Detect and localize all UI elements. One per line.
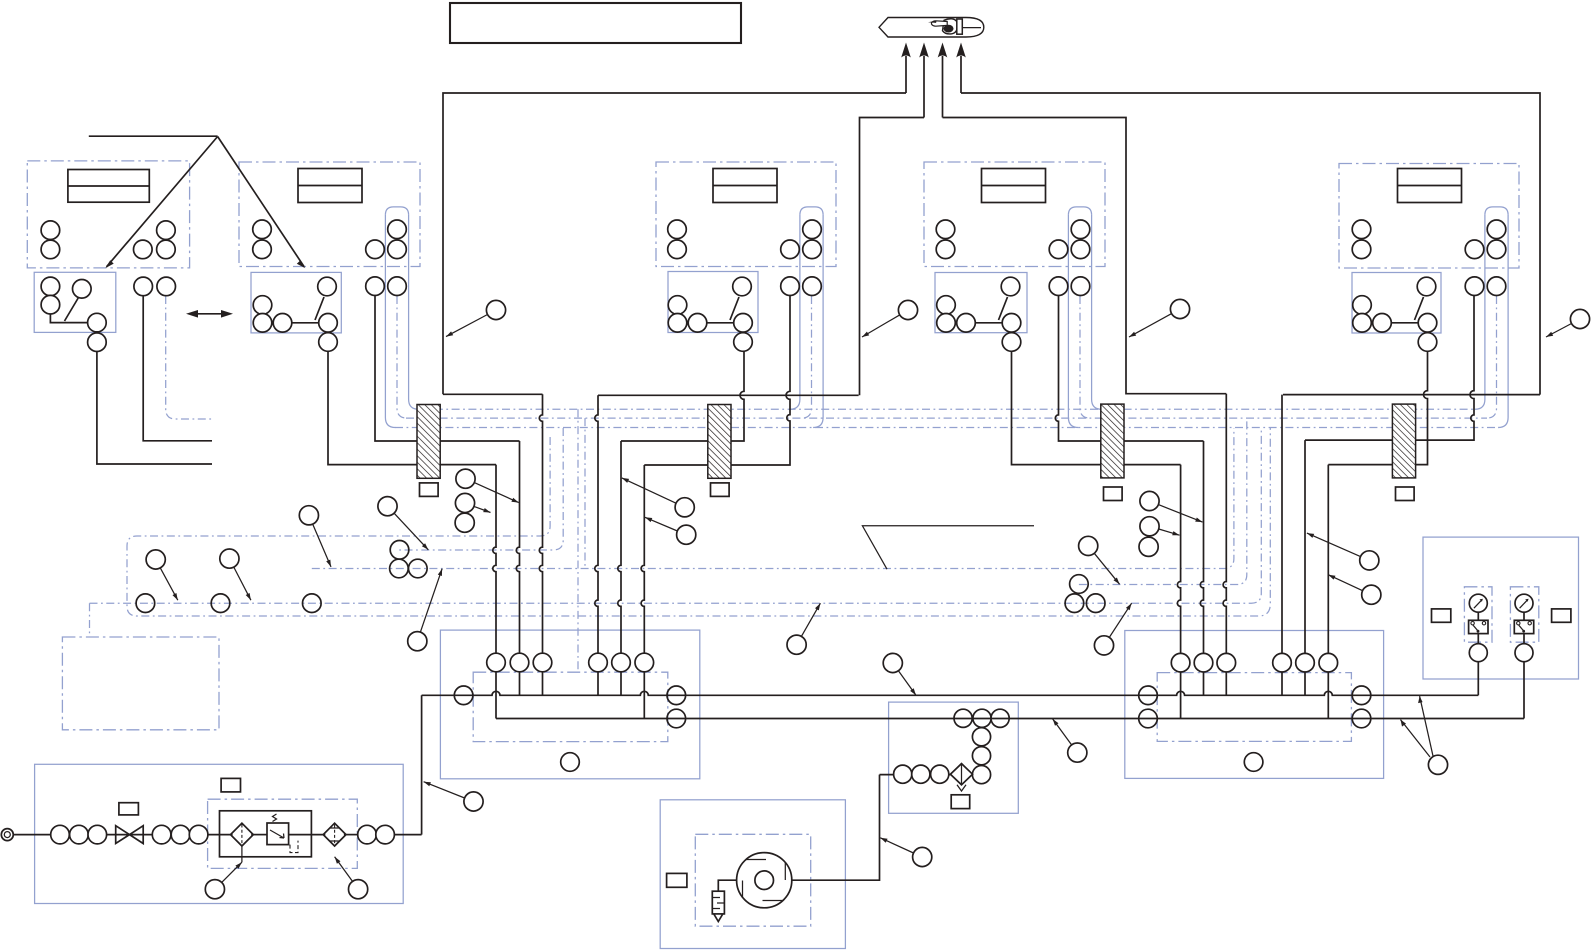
callout balloon — [1053, 719, 1087, 762]
door engine unit A enclosure — [27, 161, 189, 268]
pointing-hand banner — [879, 18, 984, 38]
unit D supply ports — [1352, 220, 1371, 239]
callout balloon — [335, 857, 368, 899]
pilot drop to reservoir box — [89, 603, 91, 637]
right manifold port x1328.3 — [1319, 653, 1338, 672]
unit C port pipe to manifold — [1055, 296, 1203, 442]
callout balloon — [862, 300, 918, 337]
callout balloon — [1307, 533, 1379, 570]
supply pipe — [344, 834, 358, 836]
supply union circles — [51, 825, 70, 844]
door engine unit C enclosure — [924, 162, 1105, 267]
pilot line y584 — [1079, 419, 1247, 585]
pilot line bundle run 2 — [406, 417, 1487, 419]
reservoir dash-dot box (empty) — [62, 637, 219, 730]
compressor intake pipe — [718, 880, 736, 891]
gauge 1 drop pipe — [1477, 662, 1479, 696]
callout balloon — [299, 506, 331, 567]
unit B valve pipe to manifold — [621, 351, 744, 441]
right manifold riser 4 — [1281, 395, 1283, 696]
unit B pilot capsule — [790, 215, 800, 409]
pressure regulator — [267, 823, 289, 845]
unit A relay valve — [73, 280, 92, 299]
supply pipe — [251, 834, 267, 836]
wall gland plate 1 — [417, 405, 440, 479]
filter 1 drain — [241, 846, 243, 862]
cluster circles on bus 2 — [954, 709, 972, 727]
main enclosure outline right — [961, 93, 1540, 395]
callout balloon — [1129, 299, 1190, 337]
unit A cylinder — [68, 170, 149, 203]
left manifold riser 2 — [516, 441, 519, 695]
supply riser — [421, 695, 423, 834]
supply pipe — [107, 834, 153, 836]
unit A2 outlet ports — [366, 277, 385, 296]
door engine unit D enclosure — [1339, 164, 1519, 269]
left manifold riser 4 — [595, 395, 598, 695]
callout balloon — [883, 653, 916, 695]
unit D valve box — [1352, 273, 1441, 334]
gland 2 label square — [711, 483, 730, 497]
unit D valve pipe to manifold — [1328, 352, 1427, 465]
callout balloon — [1079, 536, 1120, 584]
title box (empty) — [450, 3, 741, 43]
main enclosure bottom right segment — [1283, 394, 1540, 396]
inner enclosure outline right — [943, 118, 1227, 394]
pilot line y603 — [90, 428, 1262, 603]
FRL black frame — [220, 811, 312, 857]
supply source symbol — [1, 829, 13, 841]
supply pipe — [13, 834, 50, 836]
left manifold port x598 — [589, 653, 608, 672]
cluster label square — [951, 795, 970, 809]
pilot line bundle run 1 — [418, 408, 1475, 410]
left manifold riser 1 — [493, 465, 496, 719]
main air bus 2 — [496, 718, 1524, 720]
right manifold port x1305 — [1296, 653, 1315, 672]
callout balloon (blank) — [1139, 537, 1158, 556]
unit D port pipe to manifold — [1305, 296, 1474, 441]
unit B cylinder — [713, 169, 777, 203]
gauge 2 drop pipe — [1523, 662, 1525, 719]
wall gland plate 3 — [1101, 404, 1124, 478]
arrow to banner — [956, 43, 966, 94]
pressure gauge & switch 1 — [1469, 594, 1487, 612]
unit A port pipe stub — [143, 296, 212, 441]
pressure switch panel enclosure — [1423, 537, 1579, 679]
switch panel label square left — [1432, 609, 1451, 622]
pressure gauge 2 dash-dot box — [1510, 587, 1538, 642]
door engine unit B enclosure — [656, 162, 836, 267]
cluster check valve diamond — [950, 764, 972, 785]
supply pipe — [289, 834, 326, 836]
unit D cylinder — [1398, 169, 1462, 203]
unit B relay valve — [733, 277, 752, 296]
right manifold riser 2 — [1200, 441, 1203, 695]
right manifold port x1226.3 — [1217, 653, 1236, 672]
callout balloon — [1140, 517, 1180, 536]
compressor discharge pipe — [792, 775, 880, 881]
unit A valve pipe stub — [97, 352, 212, 465]
unit C valve pipe to manifold — [1012, 352, 1181, 465]
arrow to banner — [919, 43, 929, 118]
unit A pilot stub — [166, 296, 212, 419]
callout balloon — [220, 549, 251, 600]
left manifold enclosure — [440, 630, 699, 779]
unit A2 valve pipe to manifold — [328, 352, 496, 465]
unit A valve box — [34, 272, 116, 332]
unit A2 port pipe to manifold — [375, 296, 520, 442]
unit A outlet ports — [134, 277, 153, 296]
unit B supply ports — [668, 220, 687, 239]
right manifold riser 6 — [1327, 465, 1329, 719]
left manifold port x644.3 — [635, 653, 654, 672]
pilot duct outline left loop — [127, 428, 1270, 616]
unit C valve box — [935, 273, 1027, 333]
left manifold port x519.5 — [510, 653, 529, 672]
air supply unit enclosure — [35, 764, 404, 903]
unit B port pipe to manifold — [644, 296, 790, 466]
inner enclosure outline left — [860, 118, 925, 396]
callout balloon — [456, 469, 519, 503]
callout balloon double — [1401, 696, 1448, 774]
right manifold riser 5 — [1304, 440, 1306, 695]
right manifold port x1282 — [1273, 653, 1292, 672]
compressor inner dash-dot box — [695, 834, 810, 926]
unit C supply ports — [936, 220, 955, 239]
unit C cylinder — [982, 169, 1046, 203]
filter 1 diamond — [231, 823, 254, 846]
door engine unit A2 enclosure — [239, 162, 420, 267]
compressor label square — [667, 873, 687, 887]
unit C outlet ports — [1049, 277, 1068, 296]
right manifold port x1203.5 — [1194, 653, 1213, 672]
unit C relay valve — [1001, 277, 1020, 296]
wall gland plate 4 — [1392, 404, 1415, 478]
pilot line y568 — [312, 428, 1234, 569]
gland 3 label square — [1104, 487, 1123, 501]
callout balloon — [1140, 491, 1203, 522]
stop valve label square — [119, 803, 138, 815]
switch panel label square right — [1552, 609, 1571, 622]
right manifold drain circle — [1244, 753, 1263, 772]
right manifold riser 3 — [1223, 394, 1226, 696]
FRL label square — [221, 778, 240, 792]
left manifold port x621 — [612, 653, 631, 672]
right manifold riser 1 — [1177, 465, 1180, 719]
compressor intake filter — [712, 891, 724, 914]
door fold line left — [105, 137, 217, 269]
unit A2 valve box — [251, 272, 341, 333]
unit D pilot capsule — [1475, 215, 1485, 409]
main enclosure outline left — [443, 93, 906, 394]
gland 4 label square — [1396, 487, 1415, 501]
door travel double arrow — [186, 310, 233, 318]
unit A2 relay valve — [318, 277, 337, 296]
pressure gauge & switch 2 — [1515, 594, 1533, 612]
pilot line bundle run 3 — [395, 427, 1499, 429]
callout balloon (blank) — [455, 513, 474, 532]
unit B valve box — [668, 272, 758, 333]
gland 1 label square — [420, 483, 439, 497]
main enclosure bottom left segment — [443, 393, 543, 395]
callout balloon — [1094, 603, 1131, 655]
arrow to banner — [901, 43, 911, 94]
unit D relay valve — [1417, 277, 1436, 296]
unit A2 pilot capsule — [409, 215, 419, 409]
callout balloon — [446, 300, 506, 336]
cluster bottom row circles — [894, 765, 912, 783]
callout balloon — [424, 782, 484, 811]
callout balloon — [408, 569, 442, 651]
callout balloon — [378, 497, 428, 550]
filter 2 diamond — [323, 823, 346, 846]
door header line — [89, 135, 218, 137]
left manifold riser 5 — [618, 441, 621, 695]
filter-regulator dash-dot box — [208, 799, 358, 868]
left manifold port x542.5 — [533, 653, 552, 672]
unit A supply ports — [41, 221, 60, 240]
left manifold inner dash-dot box — [473, 672, 668, 741]
check-valve cluster enclosure — [889, 702, 1019, 813]
pilot line junction circles — [136, 594, 155, 613]
pilot line y550 — [399, 428, 564, 550]
cluster feed pipe from compressor — [880, 774, 951, 776]
arrow to banner — [938, 43, 948, 118]
callout balloon — [1546, 309, 1590, 337]
supply outlet pipe — [394, 834, 421, 836]
cluster vertical branch — [981, 728, 983, 766]
callout balloon — [1328, 575, 1381, 605]
callout balloon — [787, 603, 820, 654]
unit A2 supply ports — [253, 220, 272, 239]
right manifold inner dash-dot box — [1157, 673, 1351, 742]
supply pipe — [208, 834, 233, 836]
wall gland plate 2 — [708, 405, 731, 479]
main enclosure bottom middle segment — [598, 394, 859, 396]
callout balloon — [455, 493, 490, 512]
compressor unit enclosure — [660, 800, 845, 949]
door fold line right — [218, 137, 306, 269]
callout balloon — [205, 862, 242, 899]
stop valve — [116, 826, 144, 844]
unit D outlet ports — [1465, 277, 1484, 296]
left manifold port x496 — [487, 653, 506, 672]
right manifold port x1180.6 — [1171, 653, 1190, 672]
pilot drop to manifold — [577, 409, 579, 671]
callout balloon — [622, 478, 695, 517]
left manifold riser 6 — [641, 465, 644, 719]
pilot riser x585 — [584, 418, 586, 568]
pressure gauge 1 dash-dot box — [1464, 587, 1492, 642]
long label leader line — [862, 526, 1034, 569]
callout balloon — [146, 550, 178, 600]
right manifold enclosure — [1125, 631, 1384, 779]
unit B outlet ports — [781, 277, 800, 296]
unit A2 cylinder — [298, 169, 362, 203]
left manifold drain circle — [561, 753, 580, 772]
callout balloon — [645, 517, 696, 544]
main air bus 1 — [422, 691, 1479, 695]
compressor rotor — [737, 853, 792, 908]
left manifold riser 3 — [539, 394, 542, 695]
callout balloon — [880, 838, 932, 867]
unit C pilot capsule — [1092, 215, 1102, 409]
